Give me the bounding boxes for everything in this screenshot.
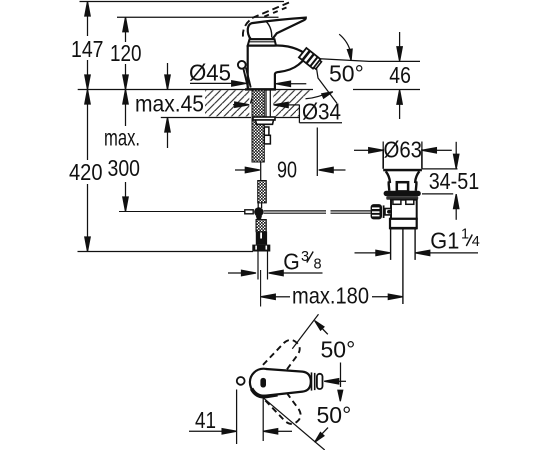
knob circle (top view) — [237, 377, 245, 385]
faucet base line — [245, 88, 276, 90]
hose nipple blocks — [264, 127, 270, 144]
label G 3/8 — [283, 249, 321, 275]
extension line top (147) — [80, 1, 285, 3]
dimension 147 — [71, 2, 104, 90]
threaded shank — [252, 90, 264, 162]
lift rod through deck — [250, 91, 256, 104]
dimension max. 300 — [104, 90, 140, 212]
svg-text:3: 3 — [301, 249, 309, 265]
svg-text:4: 4 — [472, 234, 480, 250]
handle top view: dashed raised position — [263, 335, 305, 379]
dimension 50 deg upper (handle swing) — [292, 314, 355, 362]
extension line bottom of 420 — [78, 251, 254, 253]
extension line under counter — [161, 117, 300, 119]
svg-text:420: 420 — [69, 159, 103, 185]
svg-text:34-51: 34-51 — [429, 168, 480, 194]
svg-text:46: 46 — [389, 62, 411, 88]
counter hatch left — [205, 90, 249, 116]
svg-text:147: 147 — [71, 36, 104, 62]
dimension Ø45 — [189, 60, 306, 87]
clevis above ball — [258, 203, 261, 208]
svg-text:8: 8 — [314, 257, 322, 273]
backnut washer — [253, 117, 275, 124]
horizontal rod left segment — [119, 211, 245, 213]
handle pivot circle — [250, 369, 278, 397]
rod between thread sections — [260, 162, 262, 181]
dimension Ø63 — [354, 137, 452, 163]
svg-text:Ø45: Ø45 — [189, 60, 231, 86]
handle top view: dashed lowered position — [264, 385, 306, 429]
svg-text:41: 41 — [195, 407, 216, 433]
svg-text:50°: 50° — [329, 61, 364, 87]
waste tailpipe — [391, 230, 416, 260]
dimension max.180 — [261, 283, 403, 309]
waste funnel neck — [386, 171, 420, 191]
svg-text:max.: max. — [104, 125, 140, 151]
dimension 420 — [69, 90, 103, 252]
handle lever body — [266, 369, 311, 396]
dimension 90 — [235, 128, 346, 183]
counter surface line — [78, 89, 313, 91]
pop-up lift knob — [238, 61, 251, 89]
svg-text:max.45: max.45 — [135, 91, 204, 117]
faucet lever raised (dashed) — [243, 3, 289, 39]
dimension 50 deg lower (handle swing) — [262, 396, 352, 450]
dimension G 3/8 arrows — [228, 270, 323, 275]
svg-text:50°: 50° — [321, 337, 356, 363]
waste gasket — [386, 196, 418, 200]
hose connector tube — [256, 232, 267, 245]
spout nozzle (aerator) — [299, 48, 322, 70]
svg-text:G: G — [283, 249, 300, 275]
dimension max.45 — [135, 63, 204, 148]
svg-text:Ø63: Ø63 — [384, 137, 423, 163]
dimension 41 — [189, 390, 292, 445]
lower thread section — [258, 181, 267, 203]
dimension 46 — [320, 32, 420, 119]
svg-text:50°: 50° — [317, 402, 352, 428]
svg-text:90: 90 — [277, 157, 297, 183]
svg-text:1: 1 — [461, 226, 469, 242]
svg-text:120: 120 — [110, 40, 142, 66]
dimension 34-51 — [422, 142, 479, 220]
faucet lever — [248, 18, 306, 40]
hose connection nut G3/8 — [252, 245, 270, 252]
extension line faucet axis — [260, 270, 262, 307]
svg-text:G1: G1 — [430, 227, 459, 253]
dimension 120 — [110, 17, 142, 89]
faucet cap — [248, 39, 276, 45]
handle axis reference — [324, 363, 346, 402]
hose tube in shank — [266, 90, 270, 118]
waste body — [391, 200, 417, 219]
waste flange — [384, 191, 421, 196]
dimension G1 1/4 arrows — [355, 250, 479, 255]
counter hatch right — [273, 90, 312, 116]
waste coupling ring — [390, 219, 417, 228]
flexible hose — [258, 252, 268, 280]
svg-text:300: 300 — [108, 155, 141, 181]
label G1 1/4 — [430, 226, 480, 253]
extension line 120 — [117, 16, 279, 18]
ball joint — [254, 207, 263, 219]
waste lift rod — [402, 228, 404, 304]
horizontal rod to drain — [264, 211, 371, 213]
waste cup — [383, 149, 422, 171]
waste adjuster knob — [371, 204, 392, 219]
dimension 50 deg (spout angle) — [306, 34, 364, 103]
svg-text:max.180: max.180 — [292, 283, 369, 309]
rod clevis left of ball — [245, 210, 253, 214]
svg-text:Ø34: Ø34 — [302, 99, 341, 125]
dimension Ø34 — [233, 99, 342, 125]
waste tab — [397, 182, 408, 191]
handle tip rings — [312, 372, 323, 390]
faucet body and spout — [248, 46, 305, 90]
handle grip mark — [260, 378, 266, 388]
lower thread below ball — [256, 220, 266, 232]
